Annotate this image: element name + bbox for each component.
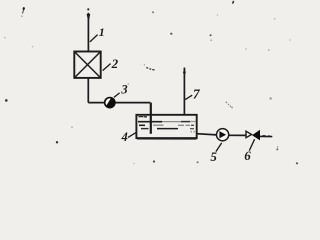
speck: dots bottom center	[153, 160, 155, 162]
speck: dot lower left	[56, 141, 58, 143]
vent arrowhead up	[183, 67, 186, 73]
speck: dot pair upper right	[210, 34, 212, 36]
leader line to label 6	[249, 139, 254, 150]
filter 2 (square with X)	[74, 52, 100, 78]
vent line 7	[183, 68, 185, 115]
wire: horizontal pipe to tank	[88, 102, 150, 104]
leader line to label 7	[185, 95, 192, 99]
svg-text:3: 3	[120, 83, 127, 97]
svg-text:5: 5	[210, 149, 217, 164]
svg-text:2: 2	[111, 56, 119, 71]
wire: pipe from filter down	[87, 78, 89, 103]
speck: gray dot right of 7	[269, 97, 271, 99]
leader line to label 5	[216, 143, 222, 152]
speck: dot near 171,34	[170, 33, 172, 35]
pump 5 (circle with triangle)	[217, 129, 229, 141]
speck: gray dot top middle	[152, 11, 154, 13]
check valve 6	[246, 130, 260, 141]
inlet flow arrowhead	[87, 14, 91, 22]
leader line to label 4	[128, 133, 136, 138]
leader line to label 2	[103, 64, 111, 71]
wire: tank outlet pipe	[197, 134, 217, 135]
svg-text:1: 1	[99, 25, 105, 39]
leader line to label 1	[90, 35, 98, 42]
speck: diagonal streak above pump	[226, 102, 233, 109]
inlet line 1 (vertical feed pipe)	[87, 13, 89, 52]
wire: dip pipe into tank	[150, 103, 152, 134]
wire: pipe pump to valve	[228, 134, 246, 136]
svg-text:4: 4	[121, 130, 128, 144]
leader line to label 3	[114, 93, 120, 98]
svg-text:6: 6	[244, 148, 251, 163]
speck: dot left middle	[5, 99, 8, 102]
speck: apostrophe mark top left	[23, 7, 25, 10]
speck: smudge right of filter	[146, 67, 154, 70]
valve 3 (filled circle with highlight)	[104, 97, 116, 109]
speck: tick top middle-right	[233, 1, 234, 4]
wire: outlet line after valve	[260, 135, 272, 137]
speck: dot bottom right	[276, 148, 278, 150]
tank 4	[136, 115, 196, 139]
speck: faint dots right area	[268, 49, 270, 51]
